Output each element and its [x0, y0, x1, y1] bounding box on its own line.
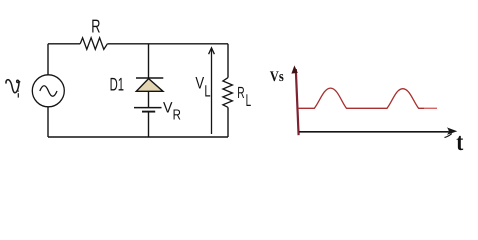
- battery VR short plate: [142, 111, 155, 113]
- svg-text:R: R: [91, 16, 100, 37]
- label vi script v: [6, 80, 20, 93]
- source Vi circle: [32, 75, 64, 107]
- svg-text:L: L: [246, 91, 252, 110]
- graph axis t (horizontal): [299, 131, 449, 133]
- arrow VL shaft: [211, 49, 213, 134]
- graph axis t arrow swoosh: [445, 134, 452, 138]
- waveform tail: [424, 107, 437, 109]
- graph axis Vs (vertical): [296, 69, 299, 135]
- source sine symbol: [40, 86, 57, 97]
- svg-text:R: R: [237, 84, 244, 102]
- graph axis Vs arrowhead: [291, 65, 297, 73]
- wire left upper: [47, 44, 49, 75]
- svg-text:t: t: [456, 129, 464, 156]
- svg-text:V: V: [163, 100, 173, 117]
- svg-text:R: R: [173, 108, 181, 124]
- waveform Vs(t): [298, 88, 424, 108]
- svg-text:Vs: Vs: [270, 69, 284, 85]
- graph axis t arrowhead: [447, 127, 458, 134]
- wire left lower: [47, 107, 49, 137]
- wire top-left: [48, 43, 80, 45]
- svg-text:L: L: [204, 83, 210, 101]
- resistor R: [80, 38, 107, 50]
- wire top-right: [107, 43, 228, 45]
- label vi subscript i: [17, 93, 19, 97]
- diode D1 cathode bar: [136, 77, 163, 79]
- resistor RL: [223, 78, 233, 108]
- wire diode branch upper: [148, 44, 150, 78]
- wire right upper: [227, 44, 229, 78]
- wire diode to battery: [148, 91, 150, 107]
- wire bottom: [48, 136, 228, 138]
- battery VR long plate: [134, 107, 162, 109]
- svg-text:D1: D1: [110, 74, 124, 95]
- arrow VL head: [209, 48, 215, 54]
- diode D1 triangle: [136, 79, 163, 92]
- wire right lower: [227, 107, 229, 137]
- wire battery to bottom: [148, 112, 150, 137]
